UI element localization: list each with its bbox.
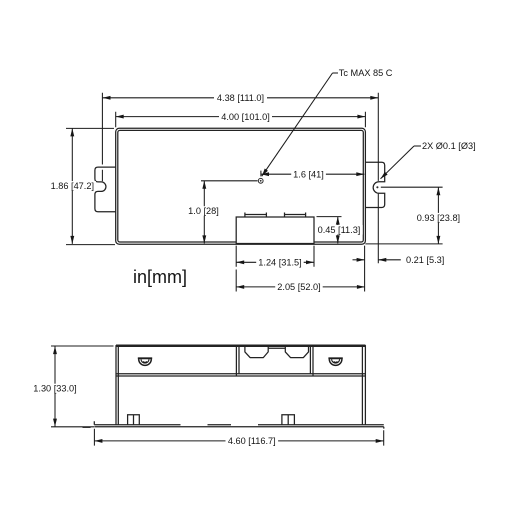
svg-text:4.38 [111.0]: 4.38 [111.0] [217,93,264,103]
side view left edge [116,345,118,425]
dim 1.24 extension lines [236,246,314,267]
top view body outer outline [116,128,366,244]
top view body inner outline [118,130,363,242]
dim line 4.60 [94,440,383,442]
svg-text:0.45 [11.3]: 0.45 [11.3] [318,225,361,235]
dim line 1.0 [203,181,205,244]
side view right edge [362,345,365,425]
right tab hole center dot [376,186,378,188]
dim 1.0 extension line [201,180,258,182]
svg-text:4.60 [116.7]: 4.60 [116.7] [228,436,276,446]
dim 4.38 extension line left (through left tab, dashed) [101,93,103,182]
base flange [94,421,384,428]
dim 0.93 extension line top [381,186,443,188]
svg-text:Tc MAX 85 C: Tc MAX 85 C [339,68,393,78]
dim line 4.38 [103,97,379,99]
svg-text:1.0 [28]: 1.0 [28] [188,206,219,216]
svg-text:0.93 [23.8]: 0.93 [23.8] [417,213,460,223]
wire clamp icon right [328,358,342,365]
svg-text:2X Ø0.1 [Ø3]: 2X Ø0.1 [Ø3] [422,141,476,151]
dim 0.21 arrow left [353,259,365,261]
dim 0.21 arrow right with tail [378,259,401,261]
svg-text:in[mm]: in[mm] [133,267,187,287]
dim 0.45 extension line [317,216,342,218]
dim line 0.93 [437,187,439,244]
dim line 4.00 [116,116,366,118]
hole label leader line [414,145,421,147]
base flange left broken tip [83,426,91,428]
dim 4.00 extension lines [116,112,366,128]
svg-text:1.86 [47.2]: 1.86 [47.2] [51,181,94,191]
ledge between arches [268,347,285,349]
wire entry arch 2 [285,346,308,357]
svg-text:2.05 [52.0]: 2.05 [52.0] [277,282,320,292]
terminal screws A [245,213,267,218]
svg-text:4.00 [101.0]: 4.00 [101.0] [221,112,270,122]
dim 0.93 extension line bottom [365,243,442,245]
text backgrounds [49,93,463,292]
svg-text:1.24 [31.5]: 1.24 [31.5] [258,258,301,268]
dim line 1.86 [71,128,73,244]
side view terminal block dividers [236,345,313,376]
wire clamp icon left [138,358,152,365]
base flange slots [181,424,259,426]
dim 4.38 extension line right (through right tab) [377,93,379,263]
side view top edge [116,345,365,346]
terminal block (top view) [236,217,314,244]
dim line 0.45 [337,217,339,244]
wire entry arch 1 [245,346,268,357]
dim line 1.30 [54,346,56,427]
Tc point tick [260,171,262,177]
svg-text:1.30 [33.0]: 1.30 [33.0] [33,384,76,394]
mounting foot left [128,415,140,425]
Tc thermal point [258,178,263,183]
dimension texts [33,68,475,446]
svg-text:0.21 [5.3]: 0.21 [5.3] [406,255,444,265]
side view cover divider lines [116,374,365,376]
mounting foot right [282,415,295,425]
dim line 2.05 [236,286,365,288]
dim 1.86 extension lines [66,128,115,244]
terminal screws B [285,213,306,218]
redraw texts over lines [31,384,278,446]
dim 4.60 extension lines [94,429,383,446]
dim line 1.6 [261,173,364,175]
dim 2.05 extension lines [236,246,364,292]
svg-text:1.6 [41]: 1.6 [41] [293,170,324,180]
right mounting tab [365,162,384,207]
dim 1.30 extension lines [51,346,114,427]
dim line 1.24 [236,261,314,263]
left mounting tab [95,167,116,212]
Tc leader line [333,72,339,74]
